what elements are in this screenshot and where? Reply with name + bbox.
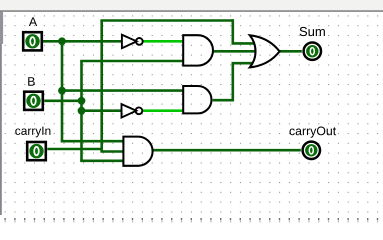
top gray band [0,0,383,10]
top band separator line [0,10,383,12]
wire carryIn pin to V3 [47,148,101,151]
output pin Sum [304,43,321,60]
junction B column / NOT2 branch [78,107,86,115]
wire AND2 output to corner [213,99,233,102]
wire V2 down: B junction to AND3 bottom row [80,101,83,161]
wire B to AND1 bottom input [80,60,183,63]
label Sum [300,27,325,36]
and gate U4 (middle) [183,86,211,113]
junction B wire [78,97,86,105]
junction A column / AND2 branch [58,87,66,95]
wire top row V3 to corner [100,19,232,22]
wire corner down to OR top input row [232,19,235,43]
wire H1: A column to AND3 top input [61,140,124,143]
junction A wire [58,37,66,45]
input pin B [24,92,43,110]
not gate U2 (inverter, B) [122,104,143,117]
label A [29,17,37,26]
wire AND3 output to carryOut pin [152,149,300,152]
output pin carryOut [303,142,320,159]
wire V1: A column down [61,41,64,141]
wire NOT1 output (logic 1) [143,40,183,43]
wire OR output to Sum pin [279,50,302,53]
wire V2 up: B junction to AND1 row [80,61,83,102]
wire into OR bottom input [232,62,253,65]
input pin carryIn [27,142,46,160]
wire H3: V3 to AND3 middle input [100,150,124,153]
label carryOut [290,127,337,138]
left scrollbar thumb [0,12,3,44]
or gate U6 [250,35,280,67]
wire A to AND2 top input [62,89,183,92]
not gate U1 (inverter, A) [122,35,143,49]
and gate U3 (top) [183,35,213,65]
wire B to NOT2 input [82,109,123,112]
input pin A [23,32,42,50]
wire A pin to NOT1 input [43,40,123,43]
label carryIn [15,127,50,138]
wire AND1 output to OR middle input [213,50,256,53]
label B [28,77,35,85]
wire V3: top row down to carry row [100,21,103,152]
wire corner up to OR bottom row [232,63,235,101]
wire H2: B column to AND3 bottom input [80,160,124,163]
wire B pin to junction [44,100,81,103]
wire NOT2 output (logic 1) [143,109,183,112]
bottom edge dot ticks [4,218,378,220]
wire into OR top input [232,42,255,45]
and gate U5 (carry, 3-input) [123,137,152,166]
left window edge line [0,11,2,215]
